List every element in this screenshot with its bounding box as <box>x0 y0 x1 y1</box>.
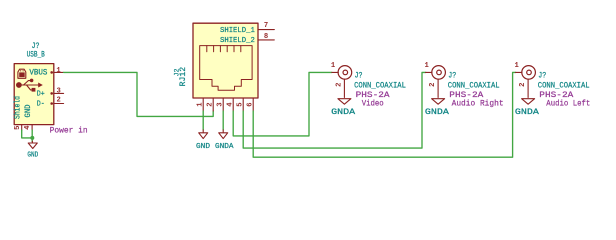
svg-text:2: 2 <box>519 83 527 87</box>
coax connector J? Audio Left <box>515 62 591 117</box>
wire USB pin5 to junction <box>22 130 33 138</box>
svg-text:J?: J? <box>355 73 363 81</box>
svg-text:1: 1 <box>56 67 61 75</box>
svg-text:4: 4 <box>24 125 32 130</box>
svg-text:5: 5 <box>236 102 244 106</box>
power symbol GNDA (Video) <box>338 99 351 105</box>
svg-text:1: 1 <box>196 102 204 107</box>
svg-text:2: 2 <box>429 83 437 87</box>
svg-text:D+: D+ <box>37 91 45 99</box>
svg-text:3: 3 <box>216 102 224 106</box>
coax pin 1 <box>516 71 523 73</box>
svg-text:SHIELD_1: SHIELD_1 <box>220 27 255 35</box>
wire RJ12 pin3 to GNDA <box>222 111 224 130</box>
svg-text:1: 1 <box>425 62 430 70</box>
coax pin 2 <box>343 79 345 98</box>
svg-text:5: 5 <box>14 126 22 130</box>
coax pin 1 <box>426 71 433 73</box>
power symbol GND (USB) <box>28 141 37 148</box>
junction <box>30 136 34 140</box>
svg-text:USB_B: USB_B <box>27 51 45 60</box>
coax connector J? Video <box>331 62 406 117</box>
svg-text:8: 8 <box>264 33 268 41</box>
wire RJ12 pin1 to GND <box>202 111 204 130</box>
svg-text:Audio Left: Audio Left <box>546 99 590 109</box>
svg-text:SHIELD_2: SHIELD_2 <box>220 37 255 45</box>
svg-text:GND: GND <box>196 143 211 151</box>
wire USB pin4 to GND <box>31 130 33 142</box>
coax pin 2 <box>527 79 529 98</box>
svg-text:Power in: Power in <box>50 125 88 135</box>
svg-text:Shield: Shield <box>14 96 23 119</box>
svg-text:2: 2 <box>57 97 61 105</box>
svg-text:4: 4 <box>226 102 234 107</box>
svg-text:GND: GND <box>27 151 38 159</box>
svg-text:Video: Video <box>362 99 384 109</box>
svg-text:GNDA: GNDA <box>515 108 539 117</box>
pin 4 GND <box>24 104 33 130</box>
svg-text:RJ12: RJ12 <box>179 67 188 87</box>
RJ12 bottom pin numbers <box>196 102 254 107</box>
svg-text:GNDA: GNDA <box>331 108 355 117</box>
pin 7 SHIELD_1 <box>220 22 274 35</box>
wire VBUS USB pin1 to RJ12 pin2 <box>64 72 214 116</box>
svg-text:VBUS: VBUS <box>29 69 47 78</box>
svg-text:2: 2 <box>335 83 343 87</box>
pin 1 VBUS <box>29 67 63 78</box>
pin 3 D+ <box>37 87 64 98</box>
RJ12 bottom pins 1-6 <box>203 98 253 111</box>
wire RJ12 pin4 to Video coax <box>233 72 332 135</box>
svg-text:7: 7 <box>264 22 268 30</box>
pin 8 SHIELD_2 <box>220 33 274 45</box>
svg-text:3: 3 <box>57 87 61 95</box>
svg-text:Audio Right: Audio Right <box>452 99 504 109</box>
USB trident icon <box>16 79 43 92</box>
coax body circle <box>522 66 536 80</box>
svg-text:J?: J? <box>538 73 546 81</box>
svg-text:1: 1 <box>331 62 336 70</box>
svg-text:GND: GND <box>24 104 33 117</box>
coax pin 2 <box>437 79 439 98</box>
power symbol GNDA (Audio Left) <box>522 99 535 105</box>
wire RJ12 pin5 to Audio Right coax <box>243 72 426 148</box>
coax center pin circle <box>437 70 442 75</box>
svg-text:GNDA: GNDA <box>215 143 234 151</box>
RJ12 jack teeth <box>207 46 241 52</box>
RJ12 jack symbol <box>200 46 252 91</box>
svg-text:J?: J? <box>448 73 456 81</box>
connector J? USB_B body <box>14 64 54 125</box>
USB-B port icon <box>18 69 26 78</box>
power symbol GNDA (RJ12 pin3) <box>219 130 228 139</box>
svg-text:6: 6 <box>246 102 254 106</box>
wire RJ12 pin6 to Audio Left coax <box>253 72 516 157</box>
coax pin 1 <box>332 71 339 73</box>
svg-text:D-: D- <box>37 101 45 109</box>
power symbol GND (RJ12 pin1) <box>199 130 208 139</box>
coax body circle <box>338 66 352 80</box>
coax center pin circle <box>343 70 348 75</box>
svg-text:2: 2 <box>206 102 214 106</box>
coax body circle <box>432 66 446 80</box>
coax center pin circle <box>527 70 532 75</box>
svg-text:GNDA: GNDA <box>425 108 449 117</box>
coax connector J? Audio Right <box>425 62 504 117</box>
connector J2 RJ12 body <box>193 23 258 98</box>
power symbol GNDA (Audio Right) <box>432 99 445 105</box>
pin 5 Shield <box>14 96 23 130</box>
pin 2 D- <box>37 97 64 109</box>
svg-text:1: 1 <box>515 62 520 70</box>
